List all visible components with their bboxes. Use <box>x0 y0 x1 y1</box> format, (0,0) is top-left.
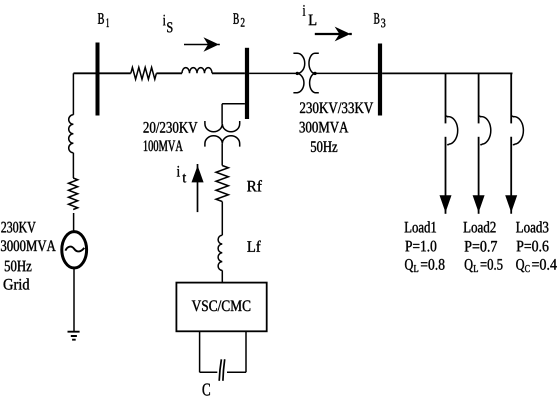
load 3 wire top <box>510 73 512 123</box>
load 2 wire bottom <box>478 137 480 214</box>
label B2 <box>233 13 244 26</box>
label B3 <box>374 13 385 27</box>
arrow it head (filled up arrow) <box>192 167 203 182</box>
label Load2 <box>463 221 495 232</box>
wire between resistor and inductor <box>156 72 182 74</box>
label Load1 <box>405 221 436 232</box>
wire left branch vertical down from main wire <box>72 73 74 115</box>
arrow it tail <box>197 164 199 212</box>
transformer T2 right junction dot <box>313 72 316 75</box>
capacitor C left plate <box>219 359 221 381</box>
resistor grid impedance (vertical zigzag) <box>69 178 78 210</box>
label 100MVA <box>144 140 183 151</box>
label QC=0.4 <box>516 259 557 272</box>
load 1 wire bottom <box>445 137 447 214</box>
label P=0.6 <box>517 241 549 252</box>
wire capacitor bottom left segment <box>200 371 218 373</box>
label Grid <box>4 278 30 289</box>
label QL=0.5 <box>465 259 503 272</box>
load 2 wire top <box>478 73 480 123</box>
wire transformer T2 to bus B3 <box>315 72 378 74</box>
wire Lf to VSC box <box>221 270 223 282</box>
label 300MVA <box>300 122 349 133</box>
label it <box>177 166 186 183</box>
label iS <box>163 15 172 33</box>
label iL <box>303 5 316 25</box>
AC source sine symbol <box>65 247 84 252</box>
label 230KV/33KV <box>300 102 373 113</box>
label Rf <box>247 180 262 191</box>
label VSC/CMC <box>192 300 251 311</box>
label QL=0.8 <box>405 259 444 272</box>
label 50Hz transformer <box>311 141 337 152</box>
transformer T2 right winding <box>309 53 319 92</box>
resistor source Rs (horizontal zigzag) <box>131 67 157 79</box>
wire capacitor bottom right segment <box>227 371 246 373</box>
wire inductor to bus B2 <box>212 72 245 74</box>
arrow load2 <box>473 196 484 211</box>
arrow iS line <box>184 44 220 46</box>
transformer T1 top winding <box>205 121 240 132</box>
wire source to ground <box>73 268 75 331</box>
label 230KV grid <box>1 222 35 233</box>
inductor Lf (vertical humps left) <box>218 235 222 270</box>
inductor source Ls (horizontal humps) <box>182 68 212 74</box>
arrow load3 <box>506 196 517 211</box>
arrow iL head <box>336 28 349 40</box>
wire B2 branch horizontal <box>222 103 245 105</box>
label 50Hz grid <box>5 261 32 272</box>
bus B3 <box>378 44 382 116</box>
inductor grid impedance (vertical humps left) <box>69 115 74 153</box>
resistor Rf (vertical zigzag) <box>216 166 228 202</box>
label P=0.7 <box>465 241 497 252</box>
bus B2 <box>245 48 249 119</box>
VSC/CMC converter box <box>176 283 266 332</box>
wire bus B3 to loads <box>382 72 512 74</box>
label 20/230KV <box>143 122 197 133</box>
label B1 <box>98 13 109 27</box>
AC source grid circle <box>62 232 87 268</box>
label C <box>203 383 210 395</box>
label Lf <box>247 241 260 252</box>
capacitor C right plate <box>223 359 225 381</box>
inductor load3 (arc) <box>512 116 524 145</box>
wire main horizontal left segment through B1 <box>73 72 130 74</box>
arrow iL line <box>315 33 352 35</box>
transformer T2 left junction dot <box>296 72 299 75</box>
wire B2 branch vertical to transformer T1 <box>221 104 223 124</box>
wire coil to resistor <box>72 153 74 178</box>
bus B1 <box>96 43 100 116</box>
ground <box>68 332 80 340</box>
load 1 wire top <box>445 73 447 123</box>
load 3 wire bottom <box>510 137 512 214</box>
wire bus B2 to transformer T2 <box>249 72 297 74</box>
label Load3 <box>516 221 548 232</box>
label 3000MVA grid <box>1 240 56 251</box>
wire resistor to source <box>73 213 75 232</box>
label P=1.0 <box>405 241 436 252</box>
transformer T1 bottom winding <box>205 136 240 147</box>
wire VSC box right leg down <box>245 331 247 372</box>
wire VSC box left leg down <box>199 331 201 372</box>
wire Rf to Lf <box>221 202 223 236</box>
inductor load1 (arc) <box>446 116 458 145</box>
arrow iS head <box>205 38 218 50</box>
inductor load2 (arc) <box>479 116 491 145</box>
arrow load1 <box>440 196 451 211</box>
transformer T2 left winding <box>293 53 304 92</box>
wire T1 to resistor Rf <box>221 144 223 166</box>
